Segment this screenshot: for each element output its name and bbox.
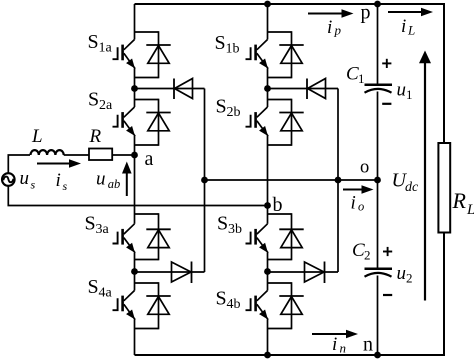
svg-text:L: L [407, 23, 415, 38]
svg-text:R: R [89, 126, 102, 147]
svg-text:2: 2 [406, 271, 413, 286]
resistor R [89, 149, 112, 161]
node clamp-a o-line junction [201, 177, 208, 184]
inductor L [31, 150, 64, 155]
arrow is [37, 163, 71, 165]
wire clamp vertical leg a [204, 89, 206, 273]
wire leg a rail [134, 4, 136, 355]
label o [360, 157, 369, 177]
svg-text:u: u [397, 80, 407, 101]
svg-text:p: p [361, 2, 371, 24]
svg-text:S: S [217, 213, 228, 235]
arrow in [312, 333, 348, 335]
ac source us circle [2, 173, 15, 186]
freewheeling diode of S3b [268, 213, 304, 260]
freewheeling diode of S4a [135, 282, 171, 329]
svg-text:o: o [360, 157, 369, 177]
svg-text:s: s [31, 178, 36, 192]
svg-text:i: i [56, 170, 61, 191]
wire right load rail lower [443, 232, 445, 356]
wire capacitor chain C2 to n [377, 276, 379, 356]
label S1b [215, 32, 240, 57]
transistor S3b (IGBT) [246, 224, 269, 253]
load resistor RL [438, 143, 450, 233]
label uab [96, 169, 120, 191]
node S3a-S4a junction [131, 268, 138, 275]
transistor S2b (IGBT) [246, 107, 269, 136]
svg-text:L: L [31, 126, 43, 147]
label C2 [352, 240, 371, 263]
label u2 [397, 263, 413, 286]
wire capacitor chain C1 to o [377, 92, 379, 181]
svg-text:2a: 2a [99, 98, 113, 113]
freewheeling diode of S2b [268, 99, 304, 146]
ac source sine symbol [3, 177, 13, 183]
node leg b top junction [264, 1, 271, 8]
svg-text:3b: 3b [228, 222, 242, 237]
transistor S4b (IGBT) [246, 291, 269, 320]
label us [20, 168, 36, 192]
wire clamp vertical leg b [337, 89, 339, 273]
node S1a-S2a junction [131, 85, 138, 92]
label L [31, 126, 43, 147]
svg-text:o: o [358, 200, 364, 214]
svg-text:n: n [363, 334, 373, 356]
wire R to node a [112, 154, 134, 156]
Udc voltage arrow [424, 61, 426, 300]
label io [351, 193, 365, 214]
wire source top lead [8, 155, 30, 173]
node p [374, 1, 381, 8]
wire L to R [64, 154, 89, 156]
wire capacitor chain o to C2 [377, 180, 379, 269]
label C1 [346, 64, 365, 86]
freewheeling diode of S3a [135, 213, 171, 260]
label is [56, 170, 68, 193]
node o [374, 177, 381, 184]
svg-text:b: b [273, 194, 283, 216]
svg-text:1b: 1b [226, 42, 240, 57]
label b [273, 194, 283, 216]
svg-text:S: S [85, 213, 96, 235]
C1 minus sign [382, 103, 391, 105]
label in [332, 334, 346, 356]
freewheeling diode of S2a [135, 99, 171, 146]
label R [89, 126, 102, 147]
svg-text:u: u [96, 169, 106, 190]
svg-text:s: s [63, 179, 68, 193]
clamp diode D2b [268, 262, 339, 284]
svg-text:1: 1 [406, 87, 413, 102]
label iL [401, 16, 415, 38]
arrow uab [126, 172, 128, 197]
transistor S1b (IGBT) [246, 40, 269, 69]
freewheeling diode of S1a [135, 31, 171, 78]
label a [145, 148, 154, 170]
svg-text:S: S [88, 276, 99, 298]
svg-text:L: L [466, 202, 474, 218]
svg-text:i: i [327, 17, 332, 38]
label Udc [392, 170, 420, 196]
svg-text:S: S [216, 288, 227, 310]
capacitor C1 curved plate [365, 89, 392, 93]
svg-text:S: S [88, 31, 99, 53]
node b [264, 202, 271, 209]
C1 plus sign [382, 62, 391, 64]
wire bottom rail n [135, 354, 445, 356]
arrow ip [308, 13, 344, 15]
arrow io [343, 189, 364, 191]
svg-text:dc: dc [405, 180, 419, 195]
label S2b [216, 96, 241, 121]
svg-text:S: S [88, 89, 99, 111]
svg-text:2: 2 [364, 248, 371, 263]
label S3b [217, 213, 242, 238]
label S4a [88, 276, 113, 301]
label S3a [85, 213, 110, 238]
node clamp-b o-line junction [335, 177, 342, 184]
svg-text:4b: 4b [227, 297, 241, 312]
svg-text:ab: ab [108, 177, 121, 191]
svg-text:1: 1 [358, 71, 365, 86]
clamp diode D1a [135, 79, 205, 100]
svg-text:n: n [340, 341, 347, 356]
freewheeling diode of S4b [268, 282, 304, 329]
label p [361, 2, 371, 24]
svg-text:S: S [215, 32, 226, 54]
label u1 [397, 80, 413, 103]
C2 plus sign [383, 251, 392, 253]
svg-text:1a: 1a [99, 41, 113, 56]
label RL [452, 188, 474, 218]
node leg b bottom junction [264, 352, 271, 359]
arrow iL [388, 11, 423, 13]
capacitor C2 plate + [365, 267, 393, 270]
svg-text:u: u [397, 263, 407, 284]
svg-text:3a: 3a [96, 222, 110, 237]
transistor S2a (IGBT) [113, 107, 136, 136]
svg-text:R: R [452, 188, 467, 213]
node S1b-S2b junction [264, 85, 271, 92]
wire source bottom lead to node b [8, 186, 267, 206]
transistor S3a (IGBT) [113, 224, 136, 253]
svg-text:a: a [145, 148, 154, 170]
transistor S1a (IGBT) [113, 40, 136, 69]
label n [363, 334, 373, 356]
transistor S4a (IGBT) [113, 291, 136, 320]
capacitor C2 curved plate [365, 273, 392, 277]
svg-text:i: i [332, 334, 337, 355]
clamp diode D2a [135, 262, 205, 284]
svg-text:S: S [216, 96, 227, 118]
svg-text:i: i [351, 193, 356, 214]
label ip [327, 17, 342, 38]
wire right load rail upper [443, 3, 445, 143]
label S4b [216, 288, 241, 313]
wire neutral o-line [205, 179, 378, 181]
node n [374, 352, 381, 359]
svg-text:i: i [401, 16, 406, 37]
C2 minus sign [383, 294, 392, 296]
label S2a [88, 89, 113, 114]
node a [131, 152, 138, 159]
svg-text:4a: 4a [99, 286, 113, 301]
svg-text:2b: 2b [227, 105, 241, 120]
wire leg b rail [267, 4, 269, 355]
wire capacitor chain upper (p to C1) [377, 4, 379, 85]
svg-text:p: p [334, 23, 342, 38]
clamp diode D1b [268, 79, 339, 100]
wire top rail p [135, 3, 445, 5]
label S1a [88, 31, 113, 56]
capacitor C1 plate + [365, 83, 393, 86]
freewheeling diode of S1b [268, 31, 304, 78]
svg-text:u: u [20, 168, 30, 189]
node S3b-S4b junction [264, 268, 271, 275]
